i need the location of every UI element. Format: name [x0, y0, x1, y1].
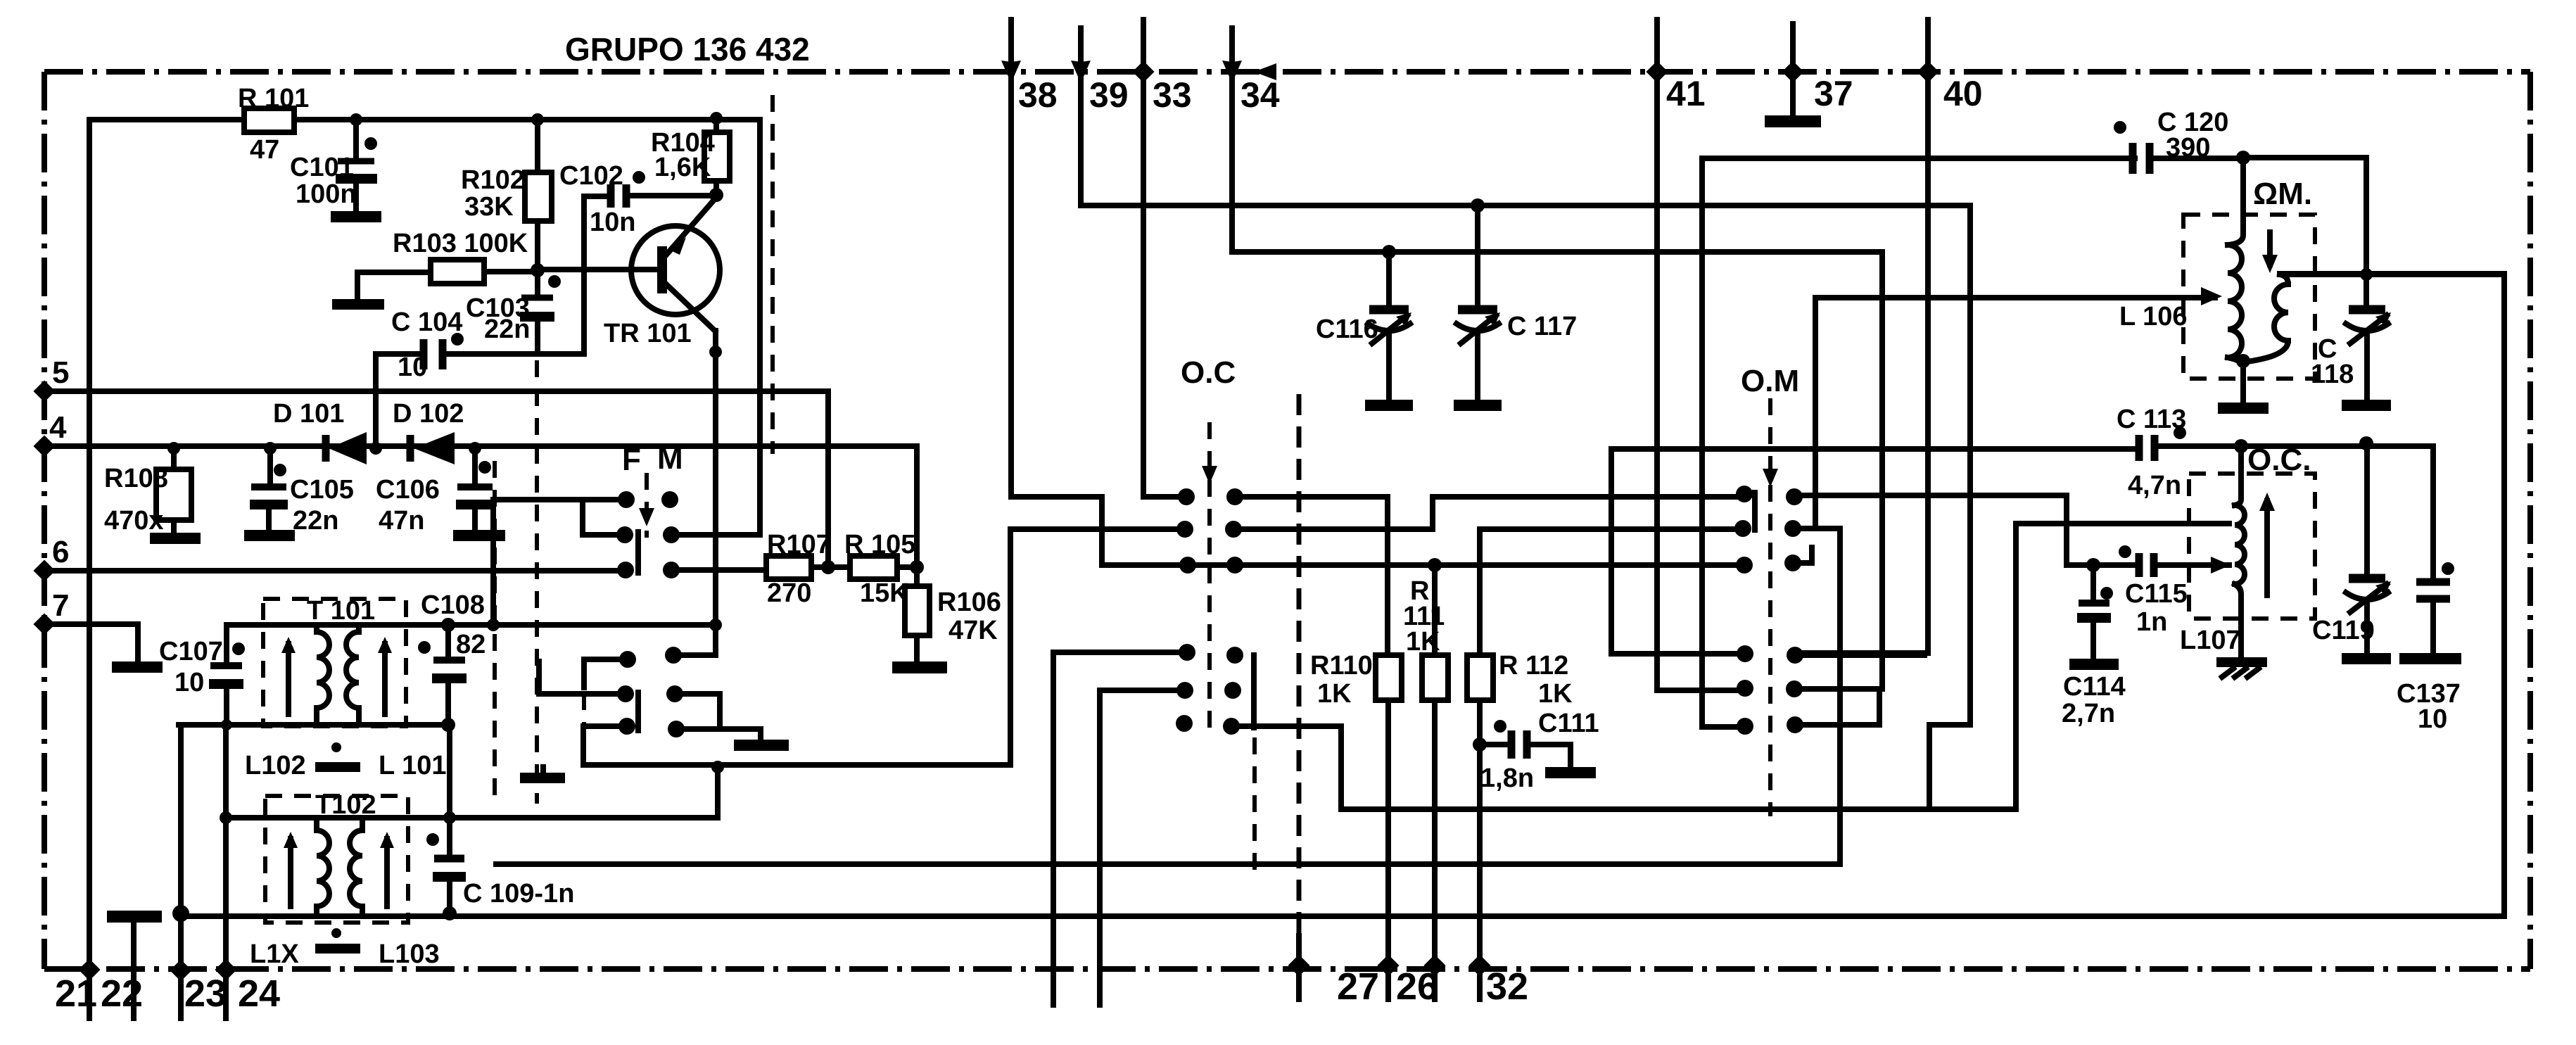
wire OM row4R: [1795, 652, 1924, 658]
resistor R104: [651, 117, 730, 195]
wire FM U jumper: [675, 694, 761, 739]
svg-text:C116: C116: [1316, 315, 1378, 344]
terminal 33: [1132, 20, 1191, 497]
unlabeled stub B: [1097, 690, 1103, 1005]
svg-text:1K: 1K: [1538, 679, 1573, 709]
svg-text:O.C: O.C: [1181, 355, 1236, 390]
svg-text:L 101: L 101: [379, 751, 446, 780]
transistor TR101: [538, 201, 720, 655]
svg-text:22n: 22n: [484, 315, 530, 344]
OM coil core arrow: [2262, 232, 2278, 273]
wire OM row2R up: [1793, 298, 2215, 528]
wire OC row4L: [1053, 650, 1187, 655]
svg-text:6: 6: [52, 535, 69, 569]
capacitor C102: [559, 161, 716, 237]
wire C108 node down: [447, 725, 452, 818]
svg-text:C105: C105: [290, 475, 354, 505]
capacitor C113: [2117, 405, 2186, 500]
resistor R111: [1403, 565, 1448, 999]
svg-text:10: 10: [2418, 704, 2447, 734]
svg-text:10: 10: [175, 668, 204, 697]
inductor L107: [2180, 446, 2267, 677]
terminal 37: [1765, 24, 1853, 127]
border arrow: [1254, 63, 1276, 80]
inductor T102 secondary: [350, 818, 394, 916]
FM bridge upper: [635, 532, 641, 573]
resistor R103: [332, 229, 538, 310]
unlabeled stub A: [1051, 652, 1056, 1005]
wire FM row5 stub: [539, 661, 626, 694]
OC coil core arrow: [2259, 493, 2275, 595]
svg-text:C 117: C 117: [1507, 312, 1577, 341]
wire OC row1R to R110: [1235, 497, 1388, 655]
wire bottom return bus: [181, 274, 2504, 916]
OC switch contacts lower: [1176, 644, 1243, 735]
bus 7: [33, 588, 163, 673]
svg-text:C111: C111: [1538, 709, 1599, 738]
svg-text:33: 33: [1153, 75, 1192, 115]
capacitor C108: [418, 590, 486, 725]
bus 6: [33, 535, 626, 582]
capacitor C115: [2093, 545, 2231, 637]
ground mid: [520, 767, 565, 783]
resistor R107: [766, 530, 850, 608]
resistor R102: [461, 120, 552, 269]
svg-text:4,7n: 4,7n: [2128, 471, 2181, 500]
resistor R101: [238, 84, 309, 165]
svg-text:D 101: D 101: [273, 399, 344, 429]
svg-text:1,8n: 1,8n: [1480, 764, 1534, 793]
svg-text:L107: L107: [2180, 626, 2241, 655]
hook OM row3R: [1793, 547, 1812, 563]
svg-text:C119: C119: [2312, 616, 2375, 645]
wire FM row4 stub: [584, 659, 628, 688]
svg-text:118: 118: [2311, 360, 2354, 389]
OC coil box L107: [2189, 474, 2315, 619]
svg-text:C108: C108: [421, 590, 485, 620]
border bottom: [44, 966, 2530, 972]
FM wire row6 to OC: [583, 529, 1185, 765]
svg-text:R 101: R 101: [238, 84, 309, 113]
svg-text:27: 27: [1337, 965, 1379, 1008]
OC bracket right: [1251, 655, 1257, 728]
svg-text:R103 100K: R103 100K: [393, 229, 528, 258]
OC switch contacts upper: [1176, 355, 1243, 574]
arrow L106 tap: [2201, 287, 2222, 305]
svg-text:L103: L103: [379, 939, 440, 969]
capacitor C111: [1480, 709, 1599, 793]
svg-text:37: 37: [1814, 74, 1853, 113]
svg-text:C101: C101: [290, 153, 354, 182]
svg-text:C102: C102: [559, 161, 623, 191]
svg-text:R 105: R 105: [844, 530, 915, 559]
svg-text:1K: 1K: [1317, 679, 1352, 709]
capacitor C104: [376, 196, 607, 448]
svg-text:47: 47: [250, 135, 279, 165]
OC linkage: [1202, 422, 1217, 732]
svg-text:100n: 100n: [296, 179, 357, 209]
FM switch contacts: [616, 441, 685, 737]
FM linkage dash A: [493, 461, 497, 804]
svg-text:C 109-1n: C 109-1n: [463, 879, 574, 908]
capacitor C101: [290, 120, 381, 222]
svg-text:D 102: D 102: [393, 399, 464, 429]
capacitor C109: [426, 818, 574, 916]
svg-text:M: M: [657, 441, 683, 476]
wire line A: [496, 528, 1840, 864]
svg-text:ΩM.: ΩM.: [2253, 177, 2312, 211]
svg-text:R110: R110: [1310, 651, 1373, 680]
svg-text:2,7n: 2,7n: [2062, 699, 2115, 728]
terminal 26: [1396, 965, 1438, 1008]
core slug upper: [245, 742, 446, 780]
svg-text:40: 40: [1943, 74, 1983, 113]
resistor R110: [1310, 651, 1402, 999]
terminal 34: [1222, 28, 1882, 689]
terminal 32: [1486, 965, 1528, 1008]
resistor R112: [1467, 529, 1743, 999]
terminal 23: [170, 725, 227, 1018]
svg-text:C 104: C 104: [391, 308, 462, 337]
wire top supply: [89, 120, 760, 535]
svg-text:1,6K: 1,6K: [654, 153, 711, 182]
OM switch contacts: [1734, 364, 1803, 735]
terminal 39: [1071, 28, 1970, 809]
resistor R106: [892, 567, 1001, 673]
OM frame: [1611, 449, 2135, 654]
wire T101 bottom: [179, 722, 448, 728]
svg-text:390: 390: [2166, 133, 2210, 163]
terminal 38: [1001, 20, 1188, 565]
capacitor C103: [466, 272, 561, 354]
resistor R105: [844, 530, 917, 608]
bus 5: [33, 355, 828, 567]
wire emitter junction row: [673, 652, 716, 658]
terminal 22 ground: [101, 911, 162, 1018]
wire C120 node: [2243, 158, 2366, 307]
wire FM row2 hook: [583, 502, 625, 535]
inductor L102 coil: [281, 625, 329, 725]
terminal 27: [1288, 394, 1379, 1008]
capacitor C120: [2114, 108, 2243, 174]
terminal 41: [1646, 20, 1741, 690]
svg-text:470x: 470x: [104, 506, 164, 536]
svg-text:22: 22: [101, 973, 143, 1015]
svg-text:C114: C114: [2063, 672, 2126, 702]
capacitor C106: [376, 448, 505, 541]
capacitor C119: [2312, 446, 2391, 664]
diode D102: [393, 399, 464, 464]
svg-text:10: 10: [398, 353, 427, 382]
section dash line: [770, 95, 775, 454]
svg-text:1n: 1n: [2136, 607, 2167, 637]
FM bridge lower: [635, 692, 641, 730]
svg-text:38: 38: [1018, 75, 1058, 115]
inductor L101 coil: [307, 596, 392, 725]
svg-text:L 106: L 106: [2119, 302, 2187, 331]
wire OC row3 to OM: [1188, 562, 1746, 568]
svg-text:32: 32: [1486, 965, 1528, 1008]
svg-text:24: 24: [238, 973, 280, 1015]
wire OC coil feed: [1611, 446, 2433, 449]
border left: [42, 72, 47, 969]
wire OM row6R: [1795, 693, 1879, 725]
capacitor C107: [159, 625, 245, 725]
terminal 40: [1799, 20, 1983, 653]
svg-text:4: 4: [49, 410, 67, 445]
svg-text:F: F: [622, 443, 641, 477]
resistor R108: [104, 446, 201, 544]
svg-text:R102: R102: [461, 165, 525, 195]
capacitor C117: [1454, 205, 1577, 411]
wire OC row2R to OM row1: [1233, 497, 1744, 529]
svg-text:41: 41: [1666, 74, 1706, 113]
svg-text:C 113: C 113: [2117, 405, 2186, 434]
svg-text:82: 82: [456, 630, 486, 659]
svg-text:47n: 47n: [379, 506, 424, 536]
svg-text:C107: C107: [159, 637, 223, 666]
wire OC row5L: [1100, 688, 1185, 693]
svg-text:15K: 15K: [860, 578, 909, 608]
svg-text:270: 270: [767, 578, 811, 608]
svg-text:23: 23: [184, 973, 227, 1015]
inductor L106 primary: [2119, 158, 2269, 414]
svg-text:T102: T102: [315, 790, 376, 820]
diode D101: [273, 399, 367, 464]
terminal 21: [55, 120, 101, 1018]
svg-text:33K: 33K: [464, 192, 514, 222]
wire T102 top: [226, 767, 718, 818]
svg-text:O.M: O.M: [1741, 364, 1799, 398]
svg-text:C106: C106: [376, 475, 440, 505]
svg-text:34: 34: [1241, 75, 1280, 115]
svg-text:7: 7: [52, 588, 69, 623]
bus 4: [33, 410, 917, 567]
capacitor C105: [244, 448, 354, 541]
OM linkage: [1763, 398, 1778, 816]
wire FM row3 to R107: [671, 567, 766, 573]
terminal 24: [215, 725, 280, 1018]
svg-text:GRUPO 136 432: GRUPO 136 432: [565, 31, 810, 68]
svg-text:39: 39: [1089, 75, 1129, 115]
svg-text:22n: 22n: [293, 506, 338, 536]
OC linkage dash lower: [1252, 737, 1257, 873]
FM linkage dash C: [582, 693, 586, 725]
svg-text:T 101: T 101: [307, 596, 375, 626]
svg-text:47K: 47K: [948, 616, 998, 645]
wire T101 top: [227, 622, 717, 628]
inductor L106 secondary: [2247, 274, 2504, 362]
T101 shield box: [263, 599, 406, 726]
OM coil box L106: [2183, 215, 2315, 379]
svg-text:L1X: L1X: [250, 939, 299, 969]
svg-text:R107: R107: [767, 530, 831, 559]
svg-text:1K: 1K: [1406, 627, 1440, 657]
svg-text:5: 5: [52, 355, 69, 390]
svg-text:R106: R106: [937, 588, 1001, 617]
border top: [44, 69, 2530, 75]
ground FM: [734, 740, 789, 751]
capacitor C118: [2311, 310, 2391, 411]
svg-text:L102: L102: [245, 751, 306, 780]
svg-text:TR 101: TR 101: [604, 319, 692, 348]
capacitor C116: [1316, 252, 1413, 411]
core slug lower: [250, 928, 440, 969]
capacitor C114: [2062, 565, 2126, 728]
border right: [2527, 72, 2533, 969]
wire OM row1R to C115 node: [1794, 495, 2091, 565]
svg-text:10n: 10n: [590, 208, 635, 237]
svg-text:R 112: R 112: [1499, 651, 1568, 680]
svg-text:R108: R108: [104, 464, 168, 493]
svg-text:O.C.: O.C.: [2247, 443, 2311, 477]
svg-text:C115: C115: [2125, 579, 2188, 609]
T102 shield box: [265, 796, 408, 923]
wire FM row1: [493, 500, 626, 625]
svg-text:21: 21: [55, 973, 97, 1015]
OM bracket: [1752, 493, 1758, 530]
inductor T102 primary: [284, 790, 376, 916]
wire OC row6R to L107 top: [1231, 524, 2229, 809]
FM linkage dash B: [535, 360, 539, 804]
capacitor C137: [2397, 446, 2461, 734]
wire OM row6L: [1702, 158, 2135, 727]
